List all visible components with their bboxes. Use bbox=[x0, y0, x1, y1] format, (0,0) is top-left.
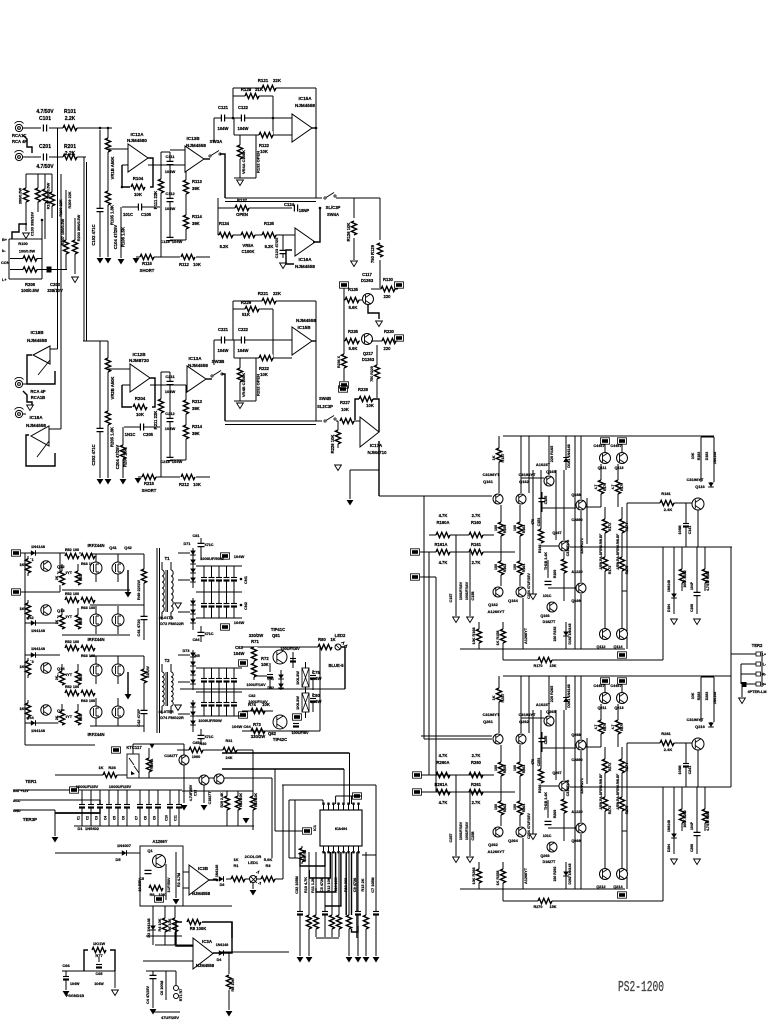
svg-text:R175: R175 bbox=[625, 566, 629, 575]
svg-text:Q168: Q168 bbox=[571, 493, 580, 497]
svg-text:B+: B+ bbox=[2, 238, 8, 242]
svg-text:R6 10K: R6 10K bbox=[168, 918, 172, 931]
svg-text:45K R5: 45K R5 bbox=[303, 850, 307, 862]
svg-text:R9: R9 bbox=[150, 893, 155, 897]
svg-text:IC13B: IC13B bbox=[186, 136, 200, 141]
svg-text:10K R168: 10K R168 bbox=[472, 627, 476, 644]
svg-text:C203: C203 bbox=[50, 282, 61, 287]
svg-text:R276: R276 bbox=[603, 723, 607, 731]
svg-text:4.7/1W R285: 4.7/1W R285 bbox=[706, 811, 710, 831]
svg-text:R172: R172 bbox=[608, 523, 612, 532]
svg-text:R2 4.7M: R2 4.7M bbox=[177, 873, 181, 887]
svg-text:VR4A C100K: VR4A C100K bbox=[241, 150, 246, 174]
svg-text:R115: R115 bbox=[142, 261, 152, 266]
svg-text:R170: R170 bbox=[533, 664, 542, 668]
svg-text:R+: R+ bbox=[762, 683, 766, 687]
svg-text:IC12B: IC12B bbox=[132, 352, 146, 357]
svg-text:R137: R137 bbox=[237, 198, 248, 203]
svg-text:R279: R279 bbox=[620, 723, 624, 731]
svg-text:C4467: C4467 bbox=[593, 684, 604, 688]
svg-text:100: 100 bbox=[494, 525, 498, 531]
svg-text:C1827T: C1827T bbox=[164, 754, 178, 758]
svg-text:R8 10K: R8 10K bbox=[231, 978, 235, 991]
svg-text:1N4148: 1N4148 bbox=[215, 865, 219, 878]
svg-text:100K R182: 100K R182 bbox=[683, 570, 687, 587]
svg-text:R215: R215 bbox=[144, 481, 155, 486]
svg-text:104W: 104W bbox=[165, 206, 176, 211]
svg-text:5.6K: 5.6K bbox=[349, 305, 358, 310]
svg-text:C41 4720: C41 4720 bbox=[136, 619, 141, 637]
svg-text:104W: 104W bbox=[234, 651, 245, 656]
svg-text:R52 100: R52 100 bbox=[65, 640, 79, 644]
svg-text:10K: 10K bbox=[691, 692, 695, 699]
svg-text:104M: 104M bbox=[678, 526, 682, 535]
svg-text:Q214: Q214 bbox=[613, 885, 623, 889]
svg-text:VR5A: VR5A bbox=[242, 243, 253, 248]
svg-text:R135: R135 bbox=[348, 287, 359, 292]
svg-text:C82: C82 bbox=[249, 694, 256, 698]
svg-text:10K: 10K bbox=[366, 403, 374, 408]
svg-text:R10 4.7K: R10 4.7K bbox=[304, 877, 308, 893]
svg-text:IC15A: IC15A bbox=[298, 96, 312, 101]
svg-text:47UF/25V: 47UF/25V bbox=[161, 1015, 179, 1020]
svg-text:TH1B 2.4K: TH1B 2.4K bbox=[544, 552, 548, 570]
svg-text:C7: C7 bbox=[135, 816, 139, 820]
svg-text:R161: R161 bbox=[471, 542, 482, 547]
svg-text:R169: R169 bbox=[553, 570, 557, 579]
svg-text:4.7/50V: 4.7/50V bbox=[36, 109, 54, 115]
svg-text:C157: C157 bbox=[449, 593, 453, 602]
svg-text:Q167: Q167 bbox=[552, 531, 561, 535]
svg-text:104P: 104P bbox=[690, 581, 694, 590]
svg-text:TER3P: TER3P bbox=[23, 817, 37, 822]
svg-text:104W: 104W bbox=[165, 169, 176, 174]
svg-text:R15 2K: R15 2K bbox=[361, 878, 365, 891]
svg-text:C5: C5 bbox=[113, 816, 117, 820]
svg-text:Q116: Q116 bbox=[695, 484, 705, 489]
svg-text:C141: C141 bbox=[688, 526, 692, 535]
svg-text:4.7K: 4.7K bbox=[439, 753, 448, 758]
svg-text:R32 10K: R32 10K bbox=[239, 793, 243, 808]
svg-text:C66: C66 bbox=[62, 963, 70, 968]
svg-text:R173: R173 bbox=[608, 566, 612, 575]
svg-text:R164: R164 bbox=[522, 564, 526, 573]
svg-text:C85: C85 bbox=[193, 741, 200, 745]
svg-text:Q111: Q111 bbox=[598, 466, 607, 470]
svg-text:100: 100 bbox=[513, 765, 517, 771]
svg-text:10.5/5V: 10.5/5V bbox=[138, 878, 142, 892]
svg-text:NJM8720: NJM8720 bbox=[129, 358, 149, 363]
svg-text:D1827T: D1827T bbox=[543, 860, 557, 864]
svg-text:C113: C113 bbox=[160, 239, 170, 244]
svg-text:R107 100/0.5W: R107 100/0.5W bbox=[47, 182, 51, 209]
svg-text:.1/5W-RA-BF/5W-RW-BF: .1/5W-RA-BF/5W-RW-BF bbox=[599, 534, 603, 570]
svg-text:Q265: Q265 bbox=[546, 709, 557, 714]
svg-text:R52 100: R52 100 bbox=[65, 685, 79, 689]
svg-text:R71: R71 bbox=[251, 639, 259, 644]
svg-text:R101: R101 bbox=[64, 109, 76, 115]
svg-text:CON: CON bbox=[1, 261, 10, 265]
svg-text:4.7/50V: 4.7/50V bbox=[36, 164, 54, 170]
svg-text:4.7K: 4.7K bbox=[439, 800, 448, 805]
svg-text:TH1B 2.4K: TH1B 2.4K bbox=[544, 792, 548, 810]
svg-text:C201: C201 bbox=[39, 144, 51, 150]
svg-text:4.7: 4.7 bbox=[594, 485, 598, 490]
svg-text:R72: R72 bbox=[261, 656, 269, 661]
svg-text:15K: 15K bbox=[550, 905, 557, 909]
svg-text:C155: C155 bbox=[544, 496, 548, 505]
svg-text:C42 472P: C42 472P bbox=[136, 709, 141, 727]
svg-text:BLUE-5: BLUE-5 bbox=[328, 663, 344, 668]
svg-text:1N4148: 1N4148 bbox=[31, 646, 46, 651]
svg-text:R73: R73 bbox=[253, 722, 261, 727]
svg-text:R29 2.4K: R29 2.4K bbox=[220, 792, 224, 808]
svg-text:R11 1.2K: R11 1.2K bbox=[311, 877, 315, 893]
svg-text:100: 100 bbox=[513, 804, 517, 810]
svg-text:24K: 24K bbox=[226, 756, 233, 760]
svg-text:CN2: CN2 bbox=[243, 601, 248, 610]
svg-text:T2: T2 bbox=[164, 658, 170, 663]
svg-text:Q164: Q164 bbox=[508, 598, 519, 603]
svg-text:1000UF/25V: 1000UF/25V bbox=[76, 784, 99, 789]
svg-text:R232 OPEN: R232 OPEN bbox=[256, 374, 261, 396]
svg-text:10K: 10K bbox=[134, 192, 143, 197]
svg-text:BAT +12V: BAT +12V bbox=[13, 789, 29, 793]
svg-text:NJM4558: NJM4558 bbox=[27, 338, 47, 343]
svg-text:RT1 R7: RT1 R7 bbox=[179, 989, 183, 1001]
svg-text:C11: C11 bbox=[174, 815, 178, 821]
svg-text:5.6K: 5.6K bbox=[349, 346, 358, 351]
svg-text:100K R282: 100K R282 bbox=[683, 810, 687, 827]
svg-text:R262: R262 bbox=[503, 804, 507, 813]
svg-text:R33 10K: R33 10K bbox=[254, 793, 258, 808]
svg-text:2.7K: 2.7K bbox=[472, 513, 481, 518]
svg-text:TER1: TER1 bbox=[25, 779, 37, 784]
svg-text:A1023T: A1023T bbox=[536, 702, 551, 707]
svg-text:NJM4558: NJM4558 bbox=[26, 423, 46, 428]
svg-text:R74: R74 bbox=[248, 702, 256, 707]
svg-text:2COLOR: 2COLOR bbox=[245, 854, 262, 859]
svg-text:IC17A: IC17A bbox=[370, 443, 383, 448]
svg-text:C112: C112 bbox=[165, 191, 175, 196]
svg-text:R260: R260 bbox=[471, 760, 482, 765]
svg-text:2K: 2K bbox=[55, 619, 59, 624]
svg-text:100/0.5W: 100/0.5W bbox=[19, 250, 36, 254]
svg-text:SHORT: SHORT bbox=[140, 268, 155, 273]
svg-text:D1363: D1363 bbox=[361, 278, 374, 283]
svg-text:C65: C65 bbox=[96, 972, 103, 976]
svg-text:CN1: CN1 bbox=[243, 575, 248, 584]
svg-text:1N5402: 1N5402 bbox=[85, 826, 100, 831]
svg-text:C101: C101 bbox=[39, 116, 51, 122]
svg-text:D161 1N4148: D161 1N4148 bbox=[567, 444, 571, 467]
svg-text:C111: C111 bbox=[165, 154, 175, 159]
svg-text:R269: R269 bbox=[553, 810, 557, 819]
svg-text:IC3A: IC3A bbox=[202, 939, 213, 944]
svg-text:104W: 104W bbox=[70, 982, 80, 986]
svg-text:R214: R214 bbox=[192, 424, 203, 429]
svg-text:1K: 1K bbox=[233, 857, 238, 862]
svg-text:330/2W: 330/2W bbox=[251, 734, 265, 739]
svg-text:C3: C3 bbox=[95, 816, 99, 820]
svg-text:PS2-1200: PS2-1200 bbox=[618, 980, 664, 996]
svg-text:R4 10K: R4 10K bbox=[158, 918, 162, 931]
svg-text:100UF/16V: 100UF/16V bbox=[465, 821, 469, 840]
svg-text:D1: D1 bbox=[77, 826, 83, 831]
svg-text:1000: 1000 bbox=[192, 755, 200, 759]
svg-text:R236 X: R236 X bbox=[337, 355, 341, 368]
svg-text:104W: 104W bbox=[94, 982, 104, 986]
svg-text:104W: 104W bbox=[238, 126, 249, 131]
svg-text:R181: R181 bbox=[661, 491, 671, 496]
svg-text:Q264: Q264 bbox=[508, 838, 519, 843]
svg-text:1N4148: 1N4148 bbox=[667, 820, 671, 832]
svg-text:R179: R179 bbox=[620, 483, 624, 491]
svg-text:Q266: Q266 bbox=[540, 854, 549, 858]
svg-text:1N4148: 1N4148 bbox=[713, 452, 717, 465]
svg-text:Q268: Q268 bbox=[571, 733, 580, 737]
svg-text:4.7: 4.7 bbox=[611, 725, 615, 730]
svg-text:104W: 104W bbox=[218, 126, 229, 131]
svg-text:C122: C122 bbox=[238, 105, 249, 110]
svg-text:4.7: 4.7 bbox=[594, 725, 598, 730]
svg-text:D1363: D1363 bbox=[362, 357, 375, 362]
svg-text:51K: 51K bbox=[242, 312, 251, 317]
svg-text:220 R192: 220 R192 bbox=[553, 627, 557, 642]
svg-text:R49 22/1W: R49 22/1W bbox=[136, 580, 141, 600]
svg-text:IC1: IC1 bbox=[313, 825, 317, 831]
svg-text:4PTER-LM: 4PTER-LM bbox=[748, 690, 767, 694]
svg-text:750 R229: 750 R229 bbox=[370, 366, 374, 382]
svg-text:1N4148: 1N4148 bbox=[216, 943, 229, 947]
svg-text:R212: R212 bbox=[179, 482, 190, 487]
svg-text:LED1: LED1 bbox=[248, 860, 259, 865]
svg-text:101C: 101C bbox=[543, 594, 552, 598]
svg-text:C100K: C100K bbox=[241, 249, 254, 254]
svg-text:C4467: C4467 bbox=[610, 684, 621, 688]
svg-text:NJM4558: NJM4558 bbox=[295, 264, 315, 269]
svg-text:100: 100 bbox=[494, 564, 498, 570]
svg-text:VR2B A50K: VR2B A50K bbox=[110, 377, 115, 400]
svg-text:330/2W: 330/2W bbox=[249, 633, 263, 638]
svg-text:R176: R176 bbox=[603, 483, 607, 491]
svg-text:1K/1W: 1K/1W bbox=[93, 941, 105, 946]
svg-text:R160A: R160A bbox=[436, 520, 449, 525]
svg-text:C102 471C: C102 471C bbox=[91, 224, 96, 245]
svg-text:471C: 471C bbox=[204, 735, 213, 739]
svg-text:104M: 104M bbox=[678, 766, 682, 775]
svg-text:D73: D73 bbox=[183, 649, 190, 653]
svg-text:R130: R130 bbox=[383, 277, 394, 282]
svg-text:1000UF/25V: 1000UF/25V bbox=[109, 784, 132, 789]
svg-text:R208: R208 bbox=[25, 282, 36, 287]
svg-text:R39 A: R39 A bbox=[150, 758, 154, 769]
svg-text:D3: D3 bbox=[220, 883, 225, 887]
svg-text:100UF/16V: 100UF/16V bbox=[459, 821, 463, 840]
svg-text:IC15B: IC15B bbox=[297, 325, 311, 330]
svg-text:R228: R228 bbox=[358, 387, 369, 392]
svg-text:104P: 104P bbox=[690, 821, 694, 830]
svg-text:100: 100 bbox=[494, 804, 498, 810]
svg-text:OPEN: OPEN bbox=[236, 212, 248, 217]
svg-text:R281: R281 bbox=[661, 731, 671, 736]
svg-text:100UF/16V: 100UF/16V bbox=[465, 581, 469, 600]
svg-text:C4 47/25V: C4 47/25V bbox=[146, 986, 150, 1004]
svg-text:Q42: Q42 bbox=[124, 545, 132, 550]
svg-text:D74 FMG22R: D74 FMG22R bbox=[160, 716, 184, 720]
svg-text:R260A: R260A bbox=[436, 760, 449, 765]
svg-text:10K: 10K bbox=[341, 407, 349, 412]
svg-text:18NP: 18NP bbox=[299, 208, 310, 213]
svg-text:Q261: Q261 bbox=[483, 719, 494, 724]
svg-text:R206 1.5K: R206 1.5K bbox=[123, 447, 128, 467]
svg-text:R14 10K: R14 10K bbox=[334, 877, 338, 892]
svg-text:Q267: Q267 bbox=[552, 771, 561, 775]
svg-text:4.7/1W R185: 4.7/1W R185 bbox=[706, 571, 710, 591]
svg-text:NJM4558: NJM4558 bbox=[295, 103, 315, 108]
svg-text:2.2K: 2.2K bbox=[65, 116, 76, 122]
svg-text:R213: R213 bbox=[192, 399, 203, 404]
svg-text:L-: L- bbox=[763, 663, 766, 667]
svg-text:L+: L+ bbox=[762, 653, 766, 657]
svg-text:100/0.5W: 100/0.5W bbox=[21, 288, 39, 293]
svg-text:1K: 1K bbox=[492, 455, 496, 460]
svg-text:C6 100M: C6 100M bbox=[160, 981, 164, 996]
svg-text:SW4B: SW4B bbox=[319, 396, 331, 401]
svg-text:.1/5W-RA-BF/5W-RW-BF: .1/5W-RA-BF/5W-RW-BF bbox=[616, 534, 620, 570]
svg-text:Q81: Q81 bbox=[272, 633, 281, 638]
svg-text:10K: 10K bbox=[193, 482, 201, 487]
svg-text:L+: L+ bbox=[2, 278, 7, 282]
svg-text:471C: 471C bbox=[204, 632, 213, 636]
svg-text:R122: R122 bbox=[259, 143, 270, 148]
svg-text:VR4B C100K: VR4B C100K bbox=[241, 373, 246, 397]
svg-text:C8: C8 bbox=[144, 816, 148, 820]
svg-text:22K: 22K bbox=[273, 291, 282, 296]
svg-text:1K: 1K bbox=[19, 606, 24, 611]
svg-text:750 R129: 750 R129 bbox=[370, 244, 375, 263]
svg-text:100: 100 bbox=[513, 564, 517, 570]
svg-text:C105: C105 bbox=[141, 212, 152, 217]
svg-text:A1266YT: A1266YT bbox=[524, 627, 528, 644]
svg-text:22/1W: 22/1W bbox=[145, 666, 150, 678]
svg-text:2K: 2K bbox=[55, 575, 59, 580]
svg-text:NJM4580: NJM4580 bbox=[127, 138, 147, 143]
svg-text:R183: R183 bbox=[697, 452, 701, 461]
svg-text:GND: GND bbox=[13, 809, 21, 813]
svg-text:NJM4710: NJM4710 bbox=[367, 450, 387, 455]
svg-text:R3: R3 bbox=[265, 863, 271, 868]
svg-text:NJM4558: NJM4558 bbox=[296, 318, 316, 323]
svg-text:Q165: Q165 bbox=[546, 469, 557, 474]
svg-text:1K R158: 1K R158 bbox=[496, 631, 500, 646]
svg-text:IC18B: IC18B bbox=[30, 330, 44, 335]
svg-text:C213: C213 bbox=[160, 459, 170, 464]
svg-text:1K6.3W: 1K6.3W bbox=[296, 696, 300, 710]
svg-text:220 R165: 220 R165 bbox=[550, 446, 554, 462]
svg-text:D284: D284 bbox=[667, 844, 671, 852]
svg-text:104W: 104W bbox=[232, 724, 243, 729]
svg-text:22K: 22K bbox=[273, 78, 282, 83]
svg-text:TER2: TER2 bbox=[752, 643, 763, 648]
svg-text:R12 10K: R12 10K bbox=[327, 877, 331, 892]
svg-text:R201: R201 bbox=[64, 144, 76, 150]
svg-text:RCA 4P: RCA 4P bbox=[30, 389, 45, 394]
svg-text:R204: R204 bbox=[135, 396, 146, 401]
svg-text:R205 1.8K: R205 1.8K bbox=[110, 427, 115, 447]
svg-text:1K: 1K bbox=[98, 765, 103, 770]
svg-text:SHORT: SHORT bbox=[142, 488, 157, 493]
svg-text:R52 100: R52 100 bbox=[65, 548, 79, 552]
svg-text:C5 4726: C5 4726 bbox=[320, 878, 324, 892]
svg-text:2.7K: 2.7K bbox=[472, 753, 481, 758]
svg-text:R-: R- bbox=[762, 673, 766, 677]
svg-text:R261: R261 bbox=[471, 782, 482, 787]
svg-text:R53: R53 bbox=[79, 715, 83, 721]
svg-text:101C: 101C bbox=[543, 834, 552, 838]
svg-text:4.7K: 4.7K bbox=[439, 560, 448, 565]
svg-text:R209 22K: R209 22K bbox=[68, 191, 72, 208]
svg-text:R161A: R161A bbox=[434, 542, 447, 547]
svg-text:NJM4558: NJM4558 bbox=[188, 363, 208, 368]
svg-text:TIP41C: TIP41C bbox=[271, 627, 285, 632]
svg-text:10K: 10K bbox=[159, 893, 166, 897]
svg-text:4.7: 4.7 bbox=[611, 485, 615, 490]
svg-text:R275: R275 bbox=[625, 806, 629, 815]
svg-text:C205: C205 bbox=[143, 432, 154, 437]
svg-text:R63 100: R63 100 bbox=[81, 699, 95, 703]
svg-text:100: 100 bbox=[513, 525, 517, 531]
svg-text:D183: D183 bbox=[705, 452, 709, 461]
svg-text:Q161: Q161 bbox=[483, 479, 494, 484]
svg-text:R203 390/0.5W: R203 390/0.5W bbox=[77, 214, 81, 241]
svg-text:D2 1N4148: D2 1N4148 bbox=[147, 918, 151, 937]
svg-text:R259: R259 bbox=[503, 765, 507, 774]
svg-text:R53: R53 bbox=[79, 619, 83, 625]
svg-text:100UF/16V: 100UF/16V bbox=[459, 581, 463, 600]
svg-text:R80: R80 bbox=[318, 637, 326, 642]
svg-text:10K: 10K bbox=[261, 662, 269, 667]
svg-text:C64: C64 bbox=[243, 724, 251, 729]
svg-text:Q169: Q169 bbox=[571, 599, 580, 603]
svg-text:104W: 104W bbox=[165, 389, 176, 394]
svg-text:R126 10K: R126 10K bbox=[346, 223, 351, 242]
svg-text:4.7UF/25V: 4.7UF/25V bbox=[189, 784, 193, 801]
svg-text:15K: 15K bbox=[550, 664, 557, 668]
svg-text:NJM4558: NJM4558 bbox=[192, 891, 211, 896]
svg-text:R121: R121 bbox=[258, 78, 269, 83]
svg-text:C9 4726: C9 4726 bbox=[353, 878, 357, 892]
svg-text:C4467: C4467 bbox=[593, 444, 604, 448]
svg-text:R109 22K: R109 22K bbox=[59, 199, 63, 216]
svg-text:T1: T1 bbox=[164, 556, 170, 561]
svg-text:Q41: Q41 bbox=[109, 545, 117, 550]
svg-text:A1266YT: A1266YT bbox=[488, 849, 505, 854]
svg-text:Q13: Q13 bbox=[57, 608, 65, 613]
svg-text:CN5: CN5 bbox=[192, 654, 200, 658]
svg-text:IC18A: IC18A bbox=[29, 415, 43, 420]
svg-text:D71: D71 bbox=[184, 542, 191, 546]
svg-text:Q82: Q82 bbox=[268, 731, 277, 736]
svg-text:C158: C158 bbox=[471, 591, 475, 600]
svg-text:C3198YT: C3198YT bbox=[483, 712, 500, 717]
svg-text:C4467: C4467 bbox=[610, 444, 621, 448]
svg-text:C1: C1 bbox=[77, 816, 81, 820]
svg-text:10K: 10K bbox=[193, 262, 201, 267]
svg-text:R8 100K: R8 100K bbox=[190, 926, 207, 931]
svg-text:R13 360: R13 360 bbox=[344, 878, 348, 892]
svg-text:104W: 104W bbox=[234, 554, 245, 559]
